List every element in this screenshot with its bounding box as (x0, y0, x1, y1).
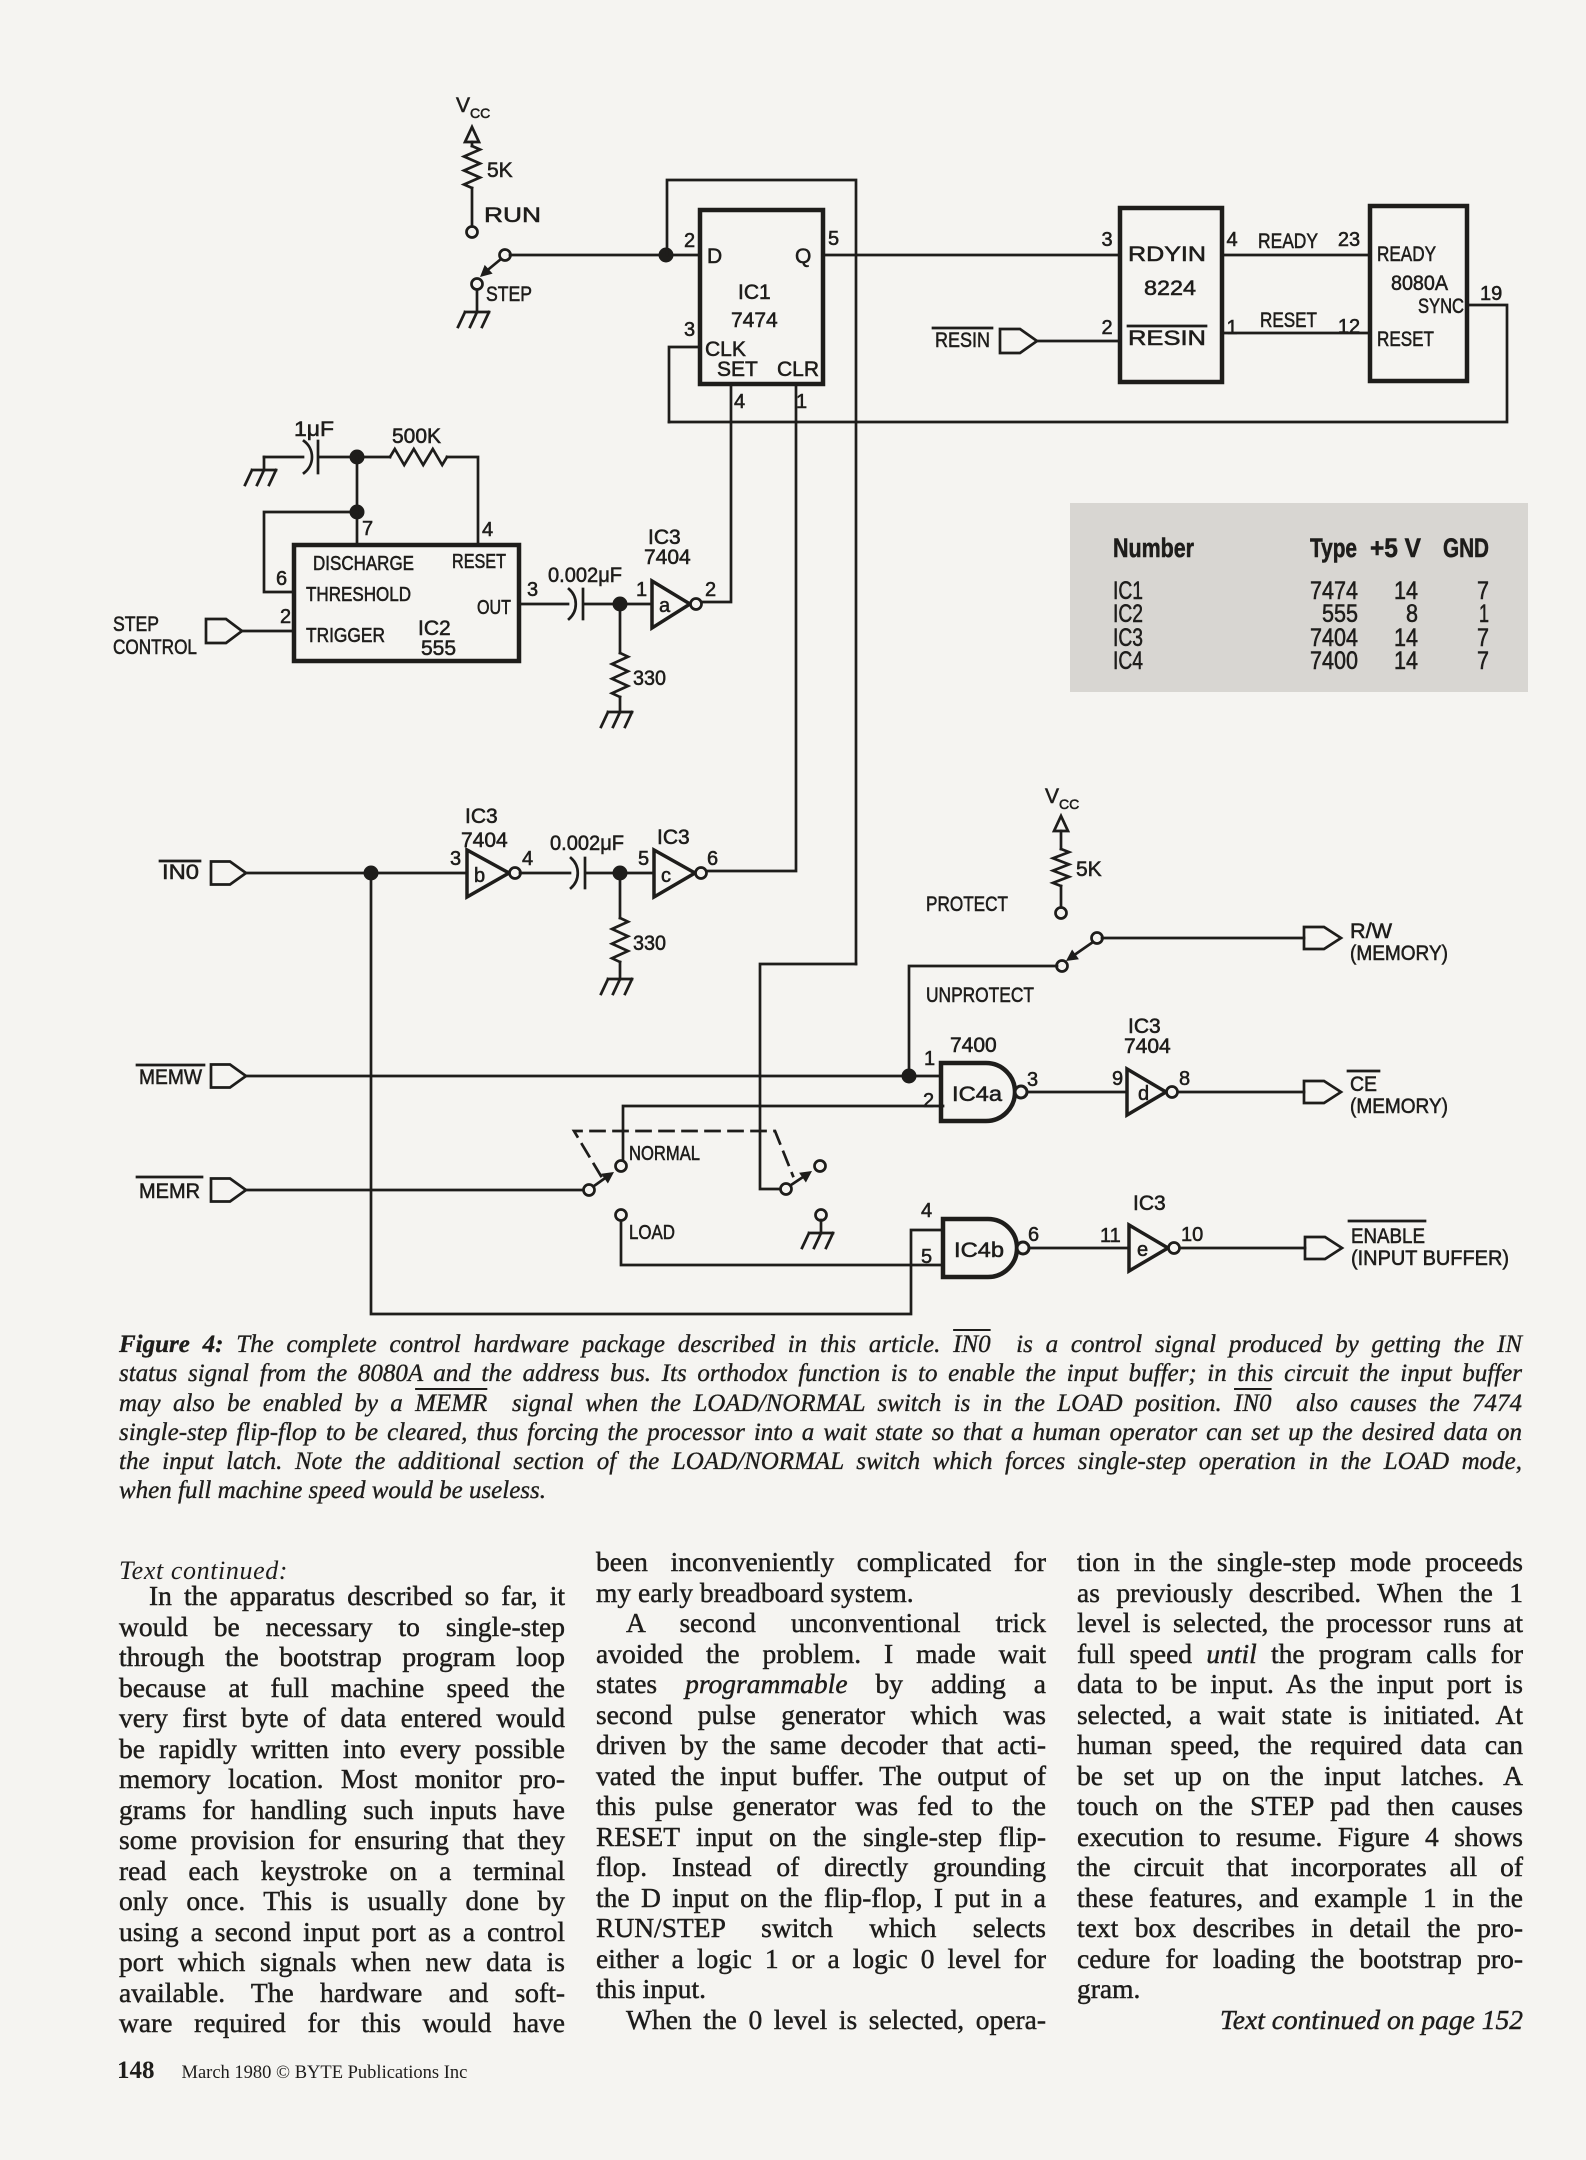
svg-text:2: 2 (923, 1090, 934, 1112)
svg-text:1: 1 (636, 579, 647, 601)
svg-text:V: V (456, 94, 470, 117)
svg-text:IC1: IC1 (738, 281, 771, 304)
svg-text:1: 1 (924, 1048, 935, 1070)
svg-text:23: 23 (1338, 229, 1360, 251)
svg-text:CONTROL: CONTROL (113, 636, 197, 659)
svg-text:RESET: RESET (1260, 309, 1317, 332)
svg-text:c: c (661, 865, 671, 887)
parts table (1070, 503, 1528, 692)
svg-text:a: a (659, 595, 671, 617)
switch SW RUN/STEP (467, 204, 542, 306)
node inverter a input (613, 597, 628, 612)
svg-text:(INPUT BUFFER): (INPUT BUFFER) (1351, 1247, 1509, 1270)
node discharge junction (350, 505, 365, 520)
output flag R/W (MEMORY) (1304, 920, 1448, 965)
svg-text:5: 5 (921, 1246, 932, 1268)
svg-text:5: 5 (828, 228, 839, 250)
wire to CE flag (1178, 1091, 1304, 1094)
node D junction (659, 248, 674, 263)
svg-text:LOAD: LOAD (629, 1222, 675, 1244)
svg-text:7: 7 (1477, 647, 1489, 675)
wire SET pin 4 to pulse generator (700, 384, 731, 602)
svg-text:MEMR: MEMR (139, 1180, 200, 1203)
svg-text:500K: 500K (392, 425, 441, 448)
inverter IC3e 7404 (1100, 1192, 1203, 1271)
wire CLR pin 1 to inverter c (705, 384, 796, 871)
nand IC4b 7400 (921, 1200, 1039, 1277)
resistor R 330 (IN0) (612, 873, 666, 979)
input flag RESIN (933, 328, 1120, 353)
wire IC4a out to inverter d (1027, 1091, 1127, 1094)
svg-text:STEP: STEP (113, 613, 159, 636)
svg-text:RESET: RESET (1377, 328, 1434, 351)
nand IC4a 7400 (923, 1034, 1038, 1121)
Vcc rail (top left) (456, 94, 490, 121)
ground (330 IN0) (601, 979, 632, 994)
svg-text:6: 6 (1028, 1224, 1039, 1246)
svg-text:+5 V: +5 V (1370, 533, 1421, 563)
svg-text:RESET: RESET (452, 551, 506, 573)
svg-text:Q: Q (795, 245, 811, 268)
svg-text:7400: 7400 (1310, 647, 1358, 675)
svg-text:RESIN: RESIN (1128, 327, 1206, 350)
svg-text:4: 4 (522, 848, 533, 870)
wire junction to THRESHOLD pin 6 (264, 512, 357, 592)
node inverter c input (613, 866, 628, 881)
svg-text:IC4a: IC4a (952, 1083, 1002, 1106)
svg-text:330: 330 (633, 932, 666, 955)
clock generator IC 8224 (1101, 208, 1237, 382)
Vcc rail (protect) (1045, 785, 1079, 812)
svg-text:5K: 5K (1076, 858, 1102, 881)
flip-flop IC1 7474 (684, 210, 839, 413)
svg-text:PROTECT: PROTECT (926, 893, 1008, 916)
wire CLK from SYNC line (669, 347, 700, 422)
capacitor C 0.002uF (pulse gen out) (519, 564, 652, 619)
svg-text:4: 4 (734, 391, 745, 413)
svg-text:3: 3 (450, 848, 461, 870)
ground (load switch) (802, 1220, 833, 1248)
switch SW LOAD/NORMAL (section 1) (584, 1143, 701, 1244)
resistor R 5K pullup (RUN/STEP) (464, 127, 513, 227)
wire to ENABLE flag (1180, 1247, 1305, 1250)
node IN0 junction (364, 866, 379, 881)
svg-text:2: 2 (684, 230, 695, 252)
svg-text:7404: 7404 (461, 829, 508, 852)
inverter IC3d 7404 (1112, 1015, 1190, 1115)
svg-text:e: e (1137, 1239, 1148, 1261)
wire READY net (1222, 229, 1370, 255)
svg-text:2: 2 (280, 606, 291, 628)
inverter IC3b 7404 (450, 805, 533, 897)
svg-text:4: 4 (482, 519, 493, 541)
inverter IC3a 7404 (636, 526, 716, 628)
svg-text:3: 3 (684, 319, 695, 341)
resistor R 330 (pulse gen) (612, 604, 666, 712)
svg-text:7404: 7404 (644, 546, 691, 569)
svg-text:IN0: IN0 (162, 861, 199, 884)
ground (1uF) (245, 457, 276, 485)
output flag ENABLE (INPUT BUFFER) (1305, 1221, 1509, 1270)
svg-text:THRESHOLD: THRESHOLD (306, 584, 411, 606)
svg-text:V: V (1045, 785, 1059, 808)
svg-text:8080A: 8080A (1391, 272, 1448, 295)
svg-text:READY: READY (1258, 230, 1318, 253)
switch SW LOAD/NORMAL (section 2) (781, 1161, 827, 1221)
resistor R 500K (357, 425, 493, 545)
svg-text:12: 12 (1338, 316, 1360, 338)
svg-text:6: 6 (707, 848, 718, 870)
svg-text:(MEMORY): (MEMORY) (1350, 1095, 1448, 1118)
node cap junction (350, 450, 365, 465)
svg-text:0.002μF: 0.002μF (548, 564, 622, 587)
svg-text:OUT: OUT (477, 597, 511, 619)
input flag STEP CONTROL (113, 606, 294, 659)
svg-text:NORMAL: NORMAL (629, 1143, 700, 1165)
wire IC4a pin 2 to NORMAL throw (623, 1106, 943, 1161)
wire unprotect to MEMW junction (909, 966, 1057, 1076)
svg-text:UNPROTECT: UNPROTECT (926, 984, 1034, 1007)
wire SYNC bottom run (669, 305, 1507, 422)
svg-text:9: 9 (1112, 1068, 1123, 1090)
svg-text:3: 3 (1027, 1069, 1038, 1091)
svg-text:555: 555 (421, 637, 456, 660)
svg-text:GND: GND (1443, 533, 1489, 563)
svg-text:5K: 5K (487, 159, 513, 182)
node MEMW junction (902, 1069, 917, 1084)
svg-text:RDYIN: RDYIN (1128, 243, 1206, 266)
svg-text:IC3: IC3 (657, 826, 690, 849)
input flag MEMR (137, 1177, 584, 1203)
svg-text:7400: 7400 (950, 1034, 997, 1057)
svg-text:CLR: CLR (777, 358, 819, 381)
switch SW PROTECT/UNPROTECT (926, 893, 1103, 1007)
svg-text:ENABLE: ENABLE (1351, 1225, 1425, 1248)
ground (STEP) (458, 290, 489, 327)
svg-text:(MEMORY): (MEMORY) (1350, 942, 1448, 965)
capacitor C 1uF (264, 418, 357, 473)
svg-text:3: 3 (1101, 229, 1112, 251)
input flag MEMW (137, 1065, 941, 1090)
svg-text:1μF: 1μF (294, 418, 334, 441)
svg-text:CE: CE (1350, 1073, 1377, 1096)
svg-text:D: D (707, 245, 722, 268)
input flag IN0 (160, 861, 467, 885)
wire RESET net (1222, 309, 1370, 338)
svg-text:Type: Type (1310, 533, 1357, 563)
wire pole to R/W flag (1102, 937, 1304, 940)
svg-text:8224: 8224 (1144, 277, 1196, 300)
processor U 8080A (1370, 206, 1502, 381)
output flag CE (MEMORY) (1304, 1071, 1448, 1118)
svg-text:2: 2 (705, 579, 716, 601)
svg-text:5: 5 (638, 848, 649, 870)
svg-text:SYNC: SYNC (1418, 295, 1464, 318)
linkage (dashed gang) (574, 1131, 793, 1176)
svg-text:R/W: R/W (1350, 920, 1392, 943)
wire switch pole to D (510, 254, 700, 257)
wire D-net to switch section 2 (760, 964, 856, 1189)
svg-text:b: b (474, 865, 485, 887)
svg-text:7474: 7474 (731, 309, 778, 332)
svg-text:2: 2 (1101, 317, 1112, 339)
svg-text:CC: CC (470, 105, 490, 121)
svg-text:IC3: IC3 (1133, 1192, 1166, 1215)
svg-text:CC: CC (1059, 796, 1079, 812)
svg-text:IC4b: IC4b (954, 1239, 1004, 1262)
timer IC2 555 (294, 545, 519, 661)
ground (330 pulse gen) (601, 712, 632, 727)
svg-text:RUN: RUN (484, 204, 541, 227)
svg-text:8: 8 (1179, 1068, 1190, 1090)
svg-text:14: 14 (1394, 647, 1418, 675)
wire junction to DISCHARGE pin 7 (356, 457, 359, 545)
svg-text:1: 1 (1226, 317, 1237, 339)
svg-text:7: 7 (362, 518, 373, 540)
svg-text:SET: SET (717, 358, 758, 381)
svg-text:4: 4 (921, 1200, 932, 1222)
svg-text:IC4: IC4 (1113, 647, 1143, 675)
wire D-loop around IC1 (667, 180, 856, 964)
svg-text:330: 330 (633, 667, 666, 690)
wire Q to RDYIN (823, 254, 1120, 257)
wire IC4b out to inverter e (1029, 1247, 1129, 1250)
wire IN0 to IC4b pin 4 (371, 873, 943, 1314)
svg-text:10: 10 (1181, 1224, 1203, 1246)
resistor R 5K (protect) (1053, 816, 1102, 908)
svg-text:TRIGGER: TRIGGER (306, 625, 385, 647)
svg-text:Number: Number (1113, 533, 1194, 563)
capacitor C 0.002uF (IN0 delay) (520, 832, 654, 888)
svg-text:1: 1 (796, 391, 807, 413)
svg-text:4: 4 (1226, 229, 1237, 251)
svg-text:19: 19 (1480, 283, 1502, 305)
svg-text:STEP: STEP (486, 283, 532, 306)
svg-text:3: 3 (527, 579, 538, 601)
svg-text:6: 6 (276, 568, 287, 590)
inverter IC3c 7404 (638, 826, 718, 897)
svg-text:RESIN: RESIN (935, 329, 990, 352)
svg-text:0.002μF: 0.002μF (550, 832, 624, 855)
svg-text:11: 11 (1100, 1225, 1121, 1247)
svg-text:DISCHARGE: DISCHARGE (313, 553, 414, 575)
svg-text:7404: 7404 (1124, 1035, 1171, 1058)
svg-text:IC3: IC3 (465, 805, 498, 828)
svg-text:d: d (1138, 1083, 1149, 1105)
svg-text:READY: READY (1377, 243, 1436, 266)
wire LOAD to IC4b pin 5 (621, 1221, 943, 1265)
svg-text:MEMW: MEMW (139, 1066, 202, 1089)
